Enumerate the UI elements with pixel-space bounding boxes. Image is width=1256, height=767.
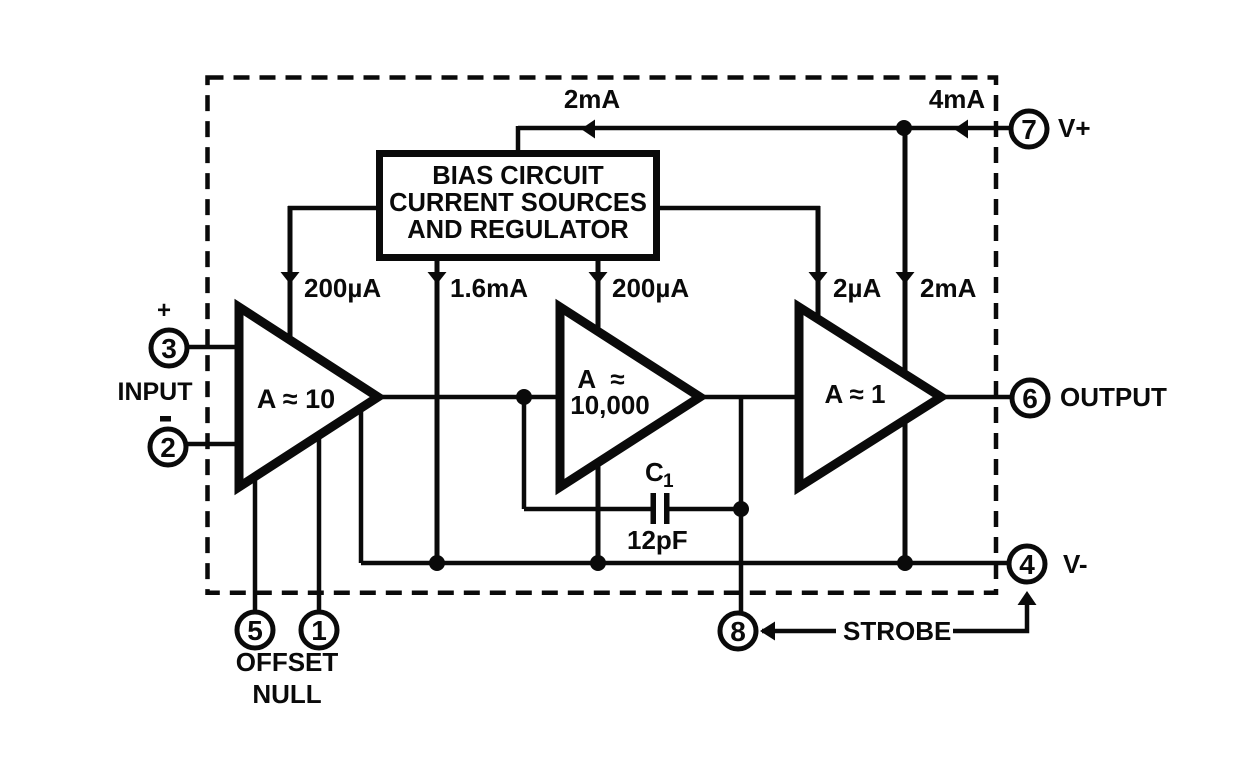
svg-text:1.6mA: 1.6mA [450,273,528,303]
svg-text:4: 4 [1019,549,1035,580]
svg-text:1: 1 [663,471,674,492]
node V- rail / 1.6mA junction [429,555,445,571]
pin 7 V+ [1011,111,1047,147]
capacitor C1 plates [651,493,670,524]
svg-text:C: C [645,457,664,487]
node V- rail / 200uA junction [590,555,606,571]
svg-text:2µA: 2µA [833,273,881,303]
wire bias box right output [656,206,820,211]
wire strobe arrow segment to pin 8 [762,629,836,634]
svg-text:OUTPUT: OUTPUT [1060,382,1167,412]
svg-text:4mA: 4mA [929,84,986,114]
wire 1.6mA current to V- rail [435,258,440,563]
svg-text:200µA: 200µA [612,273,689,303]
bias block: BIAS CIRCUIT CURRENT SOURCES AND REGULATOR [380,154,657,258]
node V- rail / 2mA junction [897,555,913,571]
arrow 200uA down into U1 [281,272,300,284]
wire U2 output to U3 input [698,395,802,400]
arrow 1.6mA down [428,272,447,284]
svg-text:OFFSET: OFFSET [236,647,339,677]
wire C1 left lead [524,507,652,512]
pin 5 OFFSET NULL [237,612,273,648]
pin 6 OUTPUT [1012,380,1048,416]
wire offset null to pin 5 [253,468,258,612]
svg-text:2mA: 2mA [920,273,977,303]
svg-text:1: 1 [311,615,327,646]
svg-text:12pF: 12pF [627,525,688,555]
pin 4 V- [1009,546,1045,582]
label - above pin 2 [160,416,171,422]
wire bias box left output [288,206,380,211]
node C1 right / strobe junction [733,501,749,517]
arrow 4mA from pin 7 (left) [954,120,968,139]
wire U3 output to pin 6 [939,395,1011,400]
svg-text:A ≈ 1: A ≈ 1 [825,379,886,409]
svg-text:10,000: 10,000 [570,390,650,420]
svg-text:8: 8 [730,616,746,647]
wire pin 2 to U1 inverting input [187,442,242,447]
arrow 2mA down [896,272,915,284]
wire 2mA supply vertical through U3 to V- rail [903,128,908,563]
svg-text:2mA: 2mA [564,84,621,114]
svg-text:AND REGULATOR: AND REGULATOR [407,216,628,244]
arrow strobe into pin 8 (left) [760,622,775,641]
wire V+ rail from corner to pin 7 [518,126,1009,131]
svg-text:A ≈ 10: A ≈ 10 [257,384,335,414]
pin 3 +INPUT [151,330,187,366]
pin 2 -INPUT [150,429,186,465]
IC package dashed boundary [208,78,997,593]
svg-text:NULL: NULL [252,679,321,709]
op-amp U2 A~10,000 [560,307,700,487]
wire U1 output to U2 input [376,395,562,400]
pin circles [150,111,1048,649]
svg-text:V+: V+ [1058,113,1091,143]
wire U1 tail down to V- rail [359,404,364,563]
wire V- rail [361,561,1009,566]
svg-text:5: 5 [247,615,263,646]
svg-text:STROBE: STROBE [843,616,951,646]
op-amp U3 A~1 [799,307,941,487]
wire C1 right lead [668,507,741,512]
svg-text:6: 6 [1022,383,1038,414]
arrowheads [281,120,1037,641]
wire 200uA current into U1 [288,206,293,348]
svg-text:CURRENT SOURCES: CURRENT SOURCES [389,189,647,217]
wire node A down to C1 left [522,395,527,509]
junction dots [429,120,913,571]
node A (U1 out / C1) junction [516,389,532,405]
svg-text:INPUT: INPUT [118,378,193,406]
wire U2 output down to pin 8 strobe [739,395,744,613]
wire offset null to pin 1 [317,428,322,612]
svg-text:7: 7 [1021,114,1037,145]
pin 1 OFFSET NULL [301,612,337,648]
op-amp U1 A~10 [239,307,378,487]
svg-text:200µA: 200µA [304,273,381,303]
svg-text:3: 3 [161,333,177,364]
svg-text:BIAS CIRCUIT: BIAS CIRCUIT [432,162,604,190]
arrow 2uA down into U3 [809,272,828,284]
pin 8 STROBE [720,613,756,649]
arrow 200uA down into U2 [589,272,608,284]
wire 200uA current through U2 to V- rail [596,258,601,563]
arrow strobe up to pin 4 [1018,591,1037,605]
node V+ / 2mA junction [896,120,912,136]
wire V+ drop into bias box top [516,126,521,152]
svg-text:2: 2 [160,432,176,463]
wire pin 3 to U1 noninverting input [187,345,242,350]
wire strobe segment to corner [953,600,1027,631]
wire 2uA current into U3 [816,206,821,328]
arrow 2mA into bias (left) [581,120,595,139]
svg-text:+: + [157,297,171,324]
svg-text:V-: V- [1063,549,1088,579]
